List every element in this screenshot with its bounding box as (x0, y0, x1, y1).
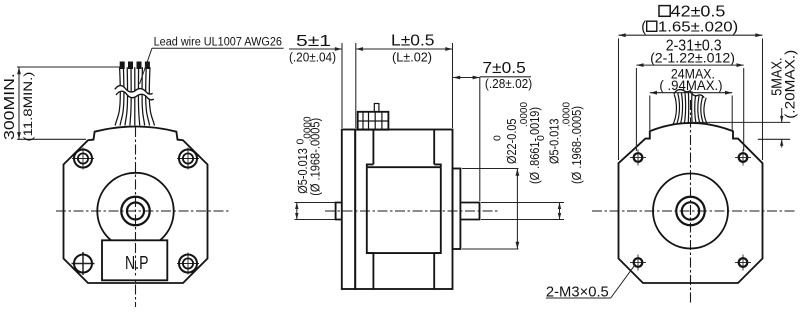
side lead wire exit (side profile) (358, 112, 389, 130)
rear view centerline horizontal (592, 210, 797, 212)
dim 5MAX line upper (781, 108, 783, 122)
dim Ø22 arrow up (516, 169, 520, 176)
2-M3 leader line (611, 265, 635, 298)
svg-text:(.28±.02): (.28±.02) (485, 77, 532, 91)
svg-text:L±0.5: L±0.5 (391, 33, 435, 50)
side pilot boss (453, 169, 461, 250)
svg-text:(L±.02): (L±.02) (392, 51, 432, 65)
dim Ø5 front arrow lower (558, 213, 561, 220)
dim 42 arrow right (755, 33, 762, 37)
dim square42 text (659, 6, 670, 17)
svg-text:0: 0 (492, 135, 504, 141)
svg-text:0: 0 (535, 135, 547, 141)
dim 7 underline (480, 76, 531, 78)
dim 300MIN dimension line (18, 67, 20, 139)
svg-text:(: ( (641, 19, 646, 35)
side step ledge top-left (367, 164, 374, 167)
rear lead wire bundle (673, 94, 677, 125)
dim 7 arrow right (473, 76, 480, 80)
ext line body right (762, 39, 764, 161)
dim 300MIN arrow up (17, 67, 21, 74)
ext line rear face (341, 43, 343, 128)
front view centerline vertical (135, 127, 137, 307)
ext line body top (5MAX) (758, 138, 790, 140)
svg-text:.0000: .0000 (562, 102, 573, 127)
dim Ø22 arrow down (516, 242, 520, 249)
rear tapped hole bottom-right (735, 262, 751, 264)
rear hub circle (676, 197, 705, 226)
dim L dimension line (356, 48, 453, 50)
dim Ø5 front arrow upper (558, 203, 561, 210)
dim 300MIN arrow down (17, 132, 21, 139)
front shaft circle (127, 203, 144, 220)
svg-text:(2-1.22±.012): (2-1.22±.012) (650, 50, 735, 66)
ext line body left (618, 39, 620, 161)
ext line rear stub bottom (295, 219, 336, 221)
side main body rect (355, 130, 452, 290)
ext line boss top (462, 168, 519, 170)
dim 42 arrow left (619, 33, 626, 37)
svg-text:(.20MAX.): (.20MAX.) (783, 50, 798, 119)
ext line screw left (635, 68, 637, 151)
dim 300MIN extension line bottom (17, 138, 86, 140)
dim 5MAX arrow down (780, 116, 783, 123)
front pilot circle (97, 173, 173, 249)
dim Ø5 rear arrow upper (295, 203, 298, 210)
front screw hole bottom-right (177, 263, 199, 265)
side front shaft (460, 203, 479, 220)
front name plate (102, 240, 167, 280)
dim 31 arrow left (636, 63, 643, 67)
svg-text:( .94MAX.): ( .94MAX.) (659, 78, 722, 93)
ext line boss bottom (462, 248, 519, 250)
side stator stack outline (367, 167, 441, 253)
ext line dome peak (692, 121, 790, 123)
front screw hole bottom-left (72, 263, 95, 265)
dim 5MAX line lower (781, 139, 783, 147)
front screw hole top-right (177, 158, 199, 160)
side rear shaft stub (336, 203, 342, 220)
svg-text:.0000: .0000 (303, 116, 314, 141)
ext line rear stub top (295, 202, 336, 204)
dim 24 arrow right (725, 91, 732, 95)
side view centerline (325, 210, 498, 212)
2-M3 underline (546, 297, 611, 299)
svg-text:(11.8MIN.): (11.8MIN.) (21, 72, 35, 142)
front view centerline horizontal (56, 210, 231, 212)
ext line dome right (731, 96, 733, 131)
side stack top inner line (367, 163, 441, 165)
dim 7 arrow left (453, 76, 460, 80)
rear tapped hole bottom-left (630, 262, 646, 264)
side end-bell line front upper (433, 130, 435, 165)
rear motor body outline (619, 123, 763, 283)
lead wire leader line (140, 48, 153, 84)
ext line mounting face (452, 43, 454, 128)
side end-bell line rear upper (372, 130, 374, 165)
front centerline inside name plate (135, 243, 137, 278)
dim 24 dimension line (650, 92, 732, 94)
svg-text:300MIN.: 300MIN. (1, 73, 18, 140)
svg-text:5±1: 5±1 (296, 33, 331, 50)
ext line shaft tip (479, 78, 481, 202)
rear shaft end circle (682, 202, 699, 219)
svg-text:(.20±.04): (.20±.04) (289, 51, 336, 65)
dim 24 arrow left (650, 91, 657, 95)
lead wire label underline (152, 47, 284, 49)
side step ledge bottom-left (367, 252, 374, 254)
dim 31 dimension line (636, 64, 743, 66)
dim Ø22 dimension line (516, 169, 518, 250)
svg-text:.0000: .0000 (519, 102, 530, 127)
svg-text:1.65±.020): 1.65±.020) (658, 19, 738, 35)
dim 5MAX arrow up (780, 139, 783, 146)
side step ledge top-right (434, 164, 441, 167)
ext line lead exit (355, 43, 357, 128)
front motor body outline (64, 127, 208, 284)
svg-text:N.P: N.P (125, 253, 149, 273)
dim 42 dimension line (619, 34, 763, 36)
rear view centerline vertical (690, 100, 692, 305)
dim Ø5 rear line (296, 203, 298, 220)
dim 31 arrow right (737, 63, 744, 67)
svg-text:7±0.5: 7±0.5 (482, 60, 525, 77)
dim L arrow left (356, 47, 363, 51)
side step ledge bottom-right (434, 252, 441, 254)
front wire break squiggle (115, 86, 154, 100)
rear bearing boss circle (653, 174, 728, 249)
front shaft boss circle (121, 197, 150, 226)
svg-text:Lead wire UL1007 AWG26: Lead wire UL1007 AWG26 (154, 36, 282, 48)
dim Ø5 rear arrow lower (295, 213, 298, 220)
ext line shaft bottom (481, 219, 564, 221)
ext line screw right (743, 68, 745, 151)
dim 7 dimension line (453, 77, 480, 79)
svg-text:42±0.5: 42±0.5 (671, 4, 726, 21)
side end-bell line rear lower (372, 253, 374, 289)
svg-text:Ø5-0.013: Ø5-0.013 (547, 119, 562, 165)
front lead wire tips (120, 62, 125, 70)
dim Ø5 front line (559, 203, 561, 220)
front screw hole top-left (72, 158, 94, 160)
dim 5±1 dimension line (289, 48, 342, 50)
rear tapped hole top-right (735, 157, 751, 159)
svg-text:Ø22-0.05: Ø22-0.05 (504, 119, 519, 165)
dim 300MIN extension line top (17, 66, 122, 68)
side rear cover slab (342, 130, 355, 290)
ext line shaft top (481, 202, 564, 204)
dim 5±1 arrow (335, 47, 342, 51)
front lead wires bundle (115, 67, 120, 125)
ext line dome left (649, 96, 651, 131)
rear tapped hole top-left (630, 157, 646, 159)
side end-bell line front lower (433, 253, 435, 289)
dim L arrow right (445, 47, 452, 51)
